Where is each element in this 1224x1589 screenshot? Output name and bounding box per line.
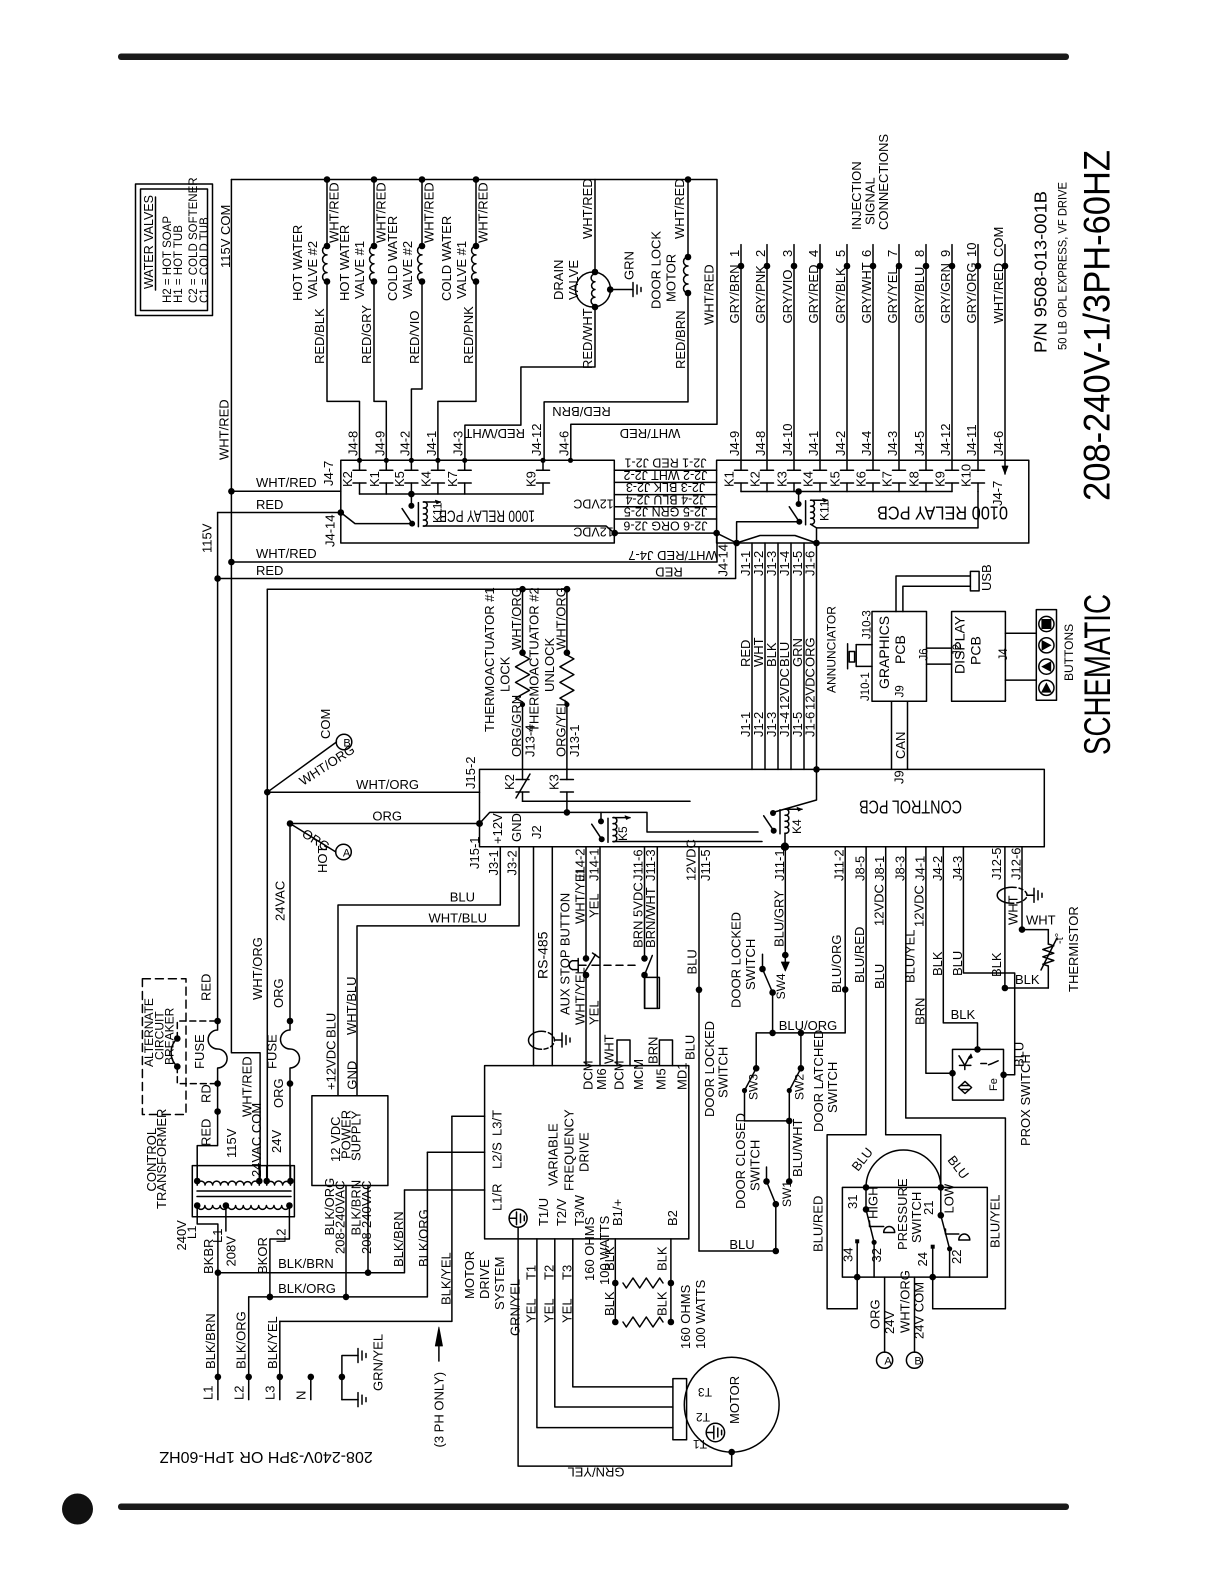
svg-text:THERMOACTUATOR #1: THERMOACTUATOR #1 <box>482 587 497 732</box>
svg-text:BREAKER: BREAKER <box>162 1007 176 1065</box>
svg-text:BLK: BLK <box>602 1246 617 1271</box>
svg-text:WHT/RED: WHT/RED <box>422 182 437 243</box>
coil water valve: COLD WATER VALVE #1 <box>438 180 491 461</box>
svg-text:SW4: SW4 <box>774 973 788 999</box>
wire +12V internal bus <box>480 812 759 832</box>
svg-text:J2-1 RED J2-1: J2-1 RED J2-1 <box>624 456 706 470</box>
svg-text:J2: J2 <box>529 825 544 839</box>
wire BLU arc jumper <box>866 1150 941 1187</box>
svg-text:115V: 115V <box>200 523 215 553</box>
svg-text:Fe: Fe <box>988 1078 1000 1091</box>
svg-text:ANNUNCIATOR: ANNUNCIATOR <box>825 606 839 693</box>
svg-text:FUSE: FUSE <box>265 1034 280 1069</box>
svg-text:J4-11: J4-11 <box>964 424 979 456</box>
svg-text:J12-6: J12-6 <box>1009 847 1024 880</box>
svg-text:BLK/ORG: BLK/ORG <box>234 1311 249 1369</box>
svg-text:J9: J9 <box>895 685 907 697</box>
svg-text:BKBR: BKBR <box>201 1239 216 1274</box>
svg-text:YEL: YEL <box>541 1298 556 1323</box>
svg-text:12VDC: 12VDC <box>777 668 792 710</box>
relay contact K5 <box>392 460 418 494</box>
svg-text:K1: K1 <box>722 471 737 487</box>
drain valve <box>464 178 613 460</box>
svg-text:BKOR: BKOR <box>255 1237 270 1274</box>
wire BLK/BRN 208-240VAC ps input <box>349 1180 374 1276</box>
fuse 24V <box>265 978 300 1108</box>
svg-text:32: 32 <box>869 1248 884 1262</box>
svg-text:J4-3: J4-3 <box>451 431 466 456</box>
svg-text:L3/T: L3/T <box>490 1110 505 1136</box>
svg-text:24V: 24V <box>882 1311 897 1334</box>
wire 115V COM rail (WHT/RED) <box>231 180 260 1182</box>
svg-text:WHT/RED: WHT/RED <box>217 399 232 460</box>
wire K10 to K11 coil <box>817 492 978 528</box>
svg-text:T3: T3 <box>559 1265 574 1280</box>
top border bar <box>118 54 1069 61</box>
wire WHT/BLU GND J3-2 <box>357 847 519 1096</box>
svg-text:SW2: SW2 <box>793 1074 807 1100</box>
relay contact K2 (0100) <box>748 460 774 491</box>
svg-text:J4-7: J4-7 <box>990 481 1005 506</box>
svg-text:CAN: CAN <box>893 732 908 759</box>
svg-text:DOOR LATCHED: DOOR LATCHED <box>811 1030 826 1132</box>
legend box WATER VALVES <box>136 177 213 315</box>
svg-text:J4-12: J4-12 <box>938 423 953 456</box>
svg-text:6: 6 <box>859 250 874 257</box>
wire BLU/GRY J11-1 <box>772 847 790 971</box>
svg-text:PCB: PCB <box>892 635 908 664</box>
svg-text:BLU/ORG: BLU/ORG <box>829 934 844 993</box>
thermoactuator THERMOACTUATOR #1 <box>482 586 538 770</box>
wire injection signal 10 GRY/ORG to J4-11 <box>964 243 981 461</box>
svg-text:1000 RELAY PCB: 1000 RELAY PCB <box>439 507 535 526</box>
svg-text:WHT/ORG: WHT/ORG <box>250 937 265 1000</box>
svg-text:J4-6: J4-6 <box>991 431 1006 456</box>
breaker contacts <box>171 1021 217 1084</box>
wire K2 bus <box>523 800 691 802</box>
svg-text:J4-3: J4-3 <box>885 431 900 456</box>
svg-text:SWITCH: SWITCH <box>715 1047 730 1098</box>
terminal GRN/YEL grounds <box>339 1334 386 1407</box>
svg-text:T2: T2 <box>696 1410 710 1424</box>
svg-text:J4-3: J4-3 <box>950 856 965 881</box>
diagonal jumpers below 0100 <box>717 533 737 543</box>
svg-text:K5: K5 <box>828 471 843 487</box>
svg-text:31: 31 <box>845 1195 860 1209</box>
svg-text:P/N 9508-013-001B: P/N 9508-013-001B <box>1031 191 1051 353</box>
wire J4-14 internal <box>341 513 412 524</box>
wire injection signal 7 GRY/YEL to J4-3 <box>885 245 902 461</box>
wire RS-485 pair <box>534 847 553 1066</box>
wire J1-3 BLK <box>764 543 779 769</box>
svg-text:J1-6: J1-6 <box>803 551 818 576</box>
svg-text:GRY/BLU: GRY/BLU <box>912 267 927 324</box>
svg-text:DOOR LOCKED: DOOR LOCKED <box>729 912 744 1008</box>
wire J2-3 BLK <box>614 494 716 496</box>
wire J2-1 RED <box>614 469 716 471</box>
svg-text:J12-5: J12-5 <box>989 847 1004 880</box>
wire WHT/ORG 24V COM to B <box>898 1270 927 1368</box>
svg-text:RED: RED <box>256 563 283 578</box>
svg-text:RED: RED <box>199 974 214 1001</box>
svg-text:7: 7 <box>885 250 900 257</box>
svg-text:COLD WATER: COLD WATER <box>385 216 400 301</box>
svg-text:-t°: -t° <box>1054 933 1066 944</box>
svg-text:J8-3: J8-3 <box>892 856 907 881</box>
svg-text:J15-2: J15-2 <box>463 756 478 789</box>
svg-text:HIGH: HIGH <box>866 1187 881 1220</box>
svg-text:BLK: BLK <box>654 1246 669 1271</box>
punch hole dot bottom left <box>62 1494 93 1525</box>
svg-text:RED/VIO: RED/VIO <box>407 311 422 364</box>
svg-text:J10-3: J10-3 <box>862 610 874 639</box>
svg-text:K9: K9 <box>524 471 539 487</box>
svg-text:GRY/VIO: GRY/VIO <box>780 270 795 324</box>
svg-text:MD1: MD1 <box>674 1063 689 1090</box>
svg-text:1: 1 <box>727 250 742 257</box>
svg-text:BLU/RED: BLU/RED <box>811 1196 826 1252</box>
svg-text:BLU: BLU <box>324 1013 339 1038</box>
svg-text:BLU/ORG: BLU/ORG <box>779 1018 838 1033</box>
MOTOR circle <box>673 1357 779 1452</box>
switch SW1 door closed <box>733 1113 794 1254</box>
svg-text:WHT/RED: WHT/RED <box>672 178 687 239</box>
svg-text:L3: L3 <box>262 1386 277 1400</box>
svg-text:BLK/BRN: BLK/BRN <box>391 1211 406 1267</box>
svg-text:BLK: BLK <box>951 1007 976 1022</box>
door lock motor coil <box>544 178 691 460</box>
wire J2-4 BLU <box>614 506 716 508</box>
wire L1 240V tap <box>174 1206 225 1275</box>
svg-text:J2-2 WHT J2-2: J2-2 WHT J2-2 <box>624 468 708 482</box>
ground GRN at drain valve <box>610 251 641 296</box>
svg-text:VALVE: VALVE <box>566 260 581 300</box>
connector oval thermistor <box>997 887 1042 903</box>
connector oval RS-485 <box>529 1031 571 1049</box>
svg-text:L1/R: L1/R <box>490 1184 505 1211</box>
fuse 115V <box>192 974 227 1103</box>
svg-text:HOT WATER: HOT WATER <box>337 225 352 301</box>
switch SW2 door latched <box>787 1030 840 1132</box>
terminal 34 <box>840 1239 860 1280</box>
svg-text:SWITCH: SWITCH <box>743 939 758 990</box>
svg-text:J14-1: J14-1 <box>587 848 602 881</box>
svg-text:K8: K8 <box>907 471 922 487</box>
svg-text:K3: K3 <box>775 471 790 487</box>
svg-text:L2: L2 <box>231 1386 246 1400</box>
svg-text:3: 3 <box>780 250 795 257</box>
svg-text:208-240VAC: 208-240VAC <box>332 1181 347 1254</box>
svg-text:J4-12: J4-12 <box>529 423 544 456</box>
relay contact K3 (0100) <box>775 460 801 491</box>
GRAPHICS PCB box <box>872 612 927 702</box>
svg-text:WHT: WHT <box>1026 913 1056 928</box>
contact LOW 21-22 <box>921 1183 970 1277</box>
svg-text:MOTOR: MOTOR <box>727 1376 742 1424</box>
svg-text:HOT: HOT <box>315 846 330 874</box>
coil water valve: HOT WATER VALVE #1 <box>337 180 389 461</box>
svg-text:T2: T2 <box>541 1265 556 1280</box>
bottom border bar <box>118 1504 1069 1511</box>
svg-text:RED/BRN: RED/BRN <box>552 404 611 419</box>
svg-text:2: 2 <box>753 250 768 257</box>
contact K2 (control) <box>502 769 530 801</box>
svg-text:J2-4 BLU J2-4: J2-4 BLU J2-4 <box>626 492 706 506</box>
wire BLU J11-5 <box>683 839 776 1252</box>
svg-text:J1-6: J1-6 <box>803 712 818 737</box>
label (3 PH ONLY) with arrow <box>431 1327 446 1448</box>
node B 24V COM circle <box>264 709 357 796</box>
svg-text:RED/WHT: RED/WHT <box>464 426 525 441</box>
wire contact bus 1000 <box>360 493 544 495</box>
svg-text:WHT/RED: WHT/RED <box>476 182 491 243</box>
wire BLU/ORG bus <box>756 847 848 1036</box>
svg-text:K5: K5 <box>392 471 407 487</box>
svg-text:BRN: BRN <box>646 1037 661 1064</box>
svg-text:J13-1: J13-1 <box>567 724 582 757</box>
svg-text:J10-1: J10-1 <box>860 672 872 701</box>
svg-text:GRN/YEL: GRN/YEL <box>371 1334 386 1391</box>
svg-text:BLU: BLU <box>684 949 699 974</box>
svg-text:GRY/WHT: GRY/WHT <box>859 262 874 323</box>
svg-text:K4: K4 <box>801 471 816 487</box>
vfd ground circle <box>509 1209 527 1227</box>
wire 115V COM top rail <box>231 180 717 461</box>
relay contact K9 (0100) <box>933 460 959 491</box>
svg-text:K2: K2 <box>502 774 517 790</box>
svg-text:5: 5 <box>833 250 848 257</box>
svg-text:YEL: YEL <box>559 1298 574 1323</box>
svg-text:J4-9: J4-9 <box>372 431 387 456</box>
svg-text:J4-8: J4-8 <box>346 431 361 456</box>
dashed mechanical link <box>592 964 640 966</box>
CONTROL PCB box <box>480 769 1045 846</box>
svg-text:K9: K9 <box>933 471 948 487</box>
svg-text:34: 34 <box>840 1248 855 1262</box>
svg-text:12VDC: 12VDC <box>573 525 613 539</box>
svg-text:J6: J6 <box>919 648 931 660</box>
svg-text:DOOR LOCK: DOOR LOCK <box>649 231 664 309</box>
wire J1-5 GRN <box>790 543 805 769</box>
relay contact K10 (0100) <box>959 460 985 491</box>
svg-text:J11-3: J11-3 <box>643 849 658 881</box>
relay contact K1 (0100) <box>722 460 748 491</box>
svg-text:RED: RED <box>256 497 283 512</box>
svg-text:K7: K7 <box>880 471 895 487</box>
svg-text:WHT/RED: WHT/RED <box>702 264 717 325</box>
svg-text:COM: COM <box>991 227 1006 257</box>
wire T2 YEL <box>541 1239 673 1407</box>
relay contact K2 <box>340 460 366 494</box>
svg-text:115V: 115V <box>224 1128 239 1158</box>
svg-text:T1: T1 <box>523 1265 538 1280</box>
relay coil K4 (control) <box>764 769 817 834</box>
wire BLU +12V J3-1 <box>338 847 500 1096</box>
thermistor element <box>1005 906 1081 992</box>
svg-text:SW1: SW1 <box>780 1181 794 1207</box>
svg-text:RED: RED <box>199 1119 214 1146</box>
svg-text:WHT/RED: WHT/RED <box>580 178 595 239</box>
wire WHT/ORG 24VAC COM rail <box>266 589 268 1181</box>
svg-text:SCHEMATIC: SCHEMATIC <box>1077 594 1118 755</box>
svg-text:YEL: YEL <box>587 893 602 918</box>
svg-text:K4: K4 <box>790 819 804 834</box>
svg-text:J4: J4 <box>998 648 1010 661</box>
wire GRN/YEL ground to motor <box>508 1227 736 1479</box>
wire RED rail J4-14 <box>218 543 736 579</box>
svg-text:J4-1: J4-1 <box>912 856 927 881</box>
svg-text:GRY/ORG: GRY/ORG <box>964 262 979 323</box>
VARIABLE FREQUENCY DRIVE box <box>485 1066 689 1239</box>
wire K11 coil to J1-6 <box>811 524 817 543</box>
svg-text:K3: K3 <box>546 774 561 790</box>
wire injection signal 6 GRY/WHT to J4-4 <box>859 245 876 461</box>
svg-text:RED/WHT: RED/WHT <box>580 308 595 369</box>
wire display-buttons link <box>1005 632 1035 634</box>
svg-text:WHT/RED: WHT/RED <box>620 426 681 441</box>
svg-text:J4-2: J4-2 <box>397 431 412 456</box>
svg-text:C1 = COLD TUB: C1 = COLD TUB <box>199 217 211 303</box>
svg-text:SWITCH: SWITCH <box>909 1192 924 1243</box>
contact HIGH 31-32 <box>845 1184 895 1277</box>
svg-text:J4-2: J4-2 <box>833 431 848 456</box>
wire injection signal 1 GRY/BRN to J4-9 <box>727 245 744 461</box>
svg-text:J8-1: J8-1 <box>872 856 887 881</box>
svg-text:BRN/WHT: BRN/WHT <box>643 887 658 948</box>
svg-text:WHT/RED J4-7: WHT/RED J4-7 <box>628 548 718 563</box>
svg-text:BLU/WHT: BLU/WHT <box>790 1118 805 1177</box>
wire J1-6 ORG <box>803 543 818 769</box>
svg-text:J4-2: J4-2 <box>930 856 945 881</box>
wire injection signal 9 GRY/GRN to J4-12 <box>938 245 955 461</box>
svg-text:CONTROL PCB: CONTROL PCB <box>859 797 962 818</box>
svg-text:GRAPHICS: GRAPHICS <box>876 616 892 689</box>
relay coil K5 (control) <box>592 812 630 842</box>
svg-text:WHT/BLU: WHT/BLU <box>429 911 488 926</box>
svg-text:T1/U: T1/U <box>536 1198 551 1226</box>
wire CAN bus <box>892 701 908 769</box>
DISPLAY PCB box <box>952 612 1006 702</box>
PROX SWITCH box <box>953 1049 1034 1146</box>
relay contact K8 (0100) <box>907 460 933 491</box>
svg-text:J8-5: J8-5 <box>853 856 868 881</box>
wire WHT/ORG to J15-2 <box>267 791 479 793</box>
wire BLU 12VDC J8-1 <box>872 847 941 1188</box>
svg-text:DRIVE: DRIVE <box>577 1132 592 1172</box>
svg-text:160 OHMS: 160 OHMS <box>678 1284 693 1349</box>
svg-text:L2: L2 <box>274 1229 289 1243</box>
wire T1 YEL <box>523 1239 673 1428</box>
svg-text:50 LB OPL EXPRESS, VF DRIVE: 50 LB OPL EXPRESS, VF DRIVE <box>1056 182 1070 350</box>
svg-text:J3-1: J3-1 <box>486 850 501 875</box>
svg-text:24V COM: 24V COM <box>912 1282 927 1339</box>
wire ORG to transformer 24V <box>289 1084 291 1181</box>
wire BRN J4-1 to prox <box>912 847 956 1077</box>
svg-text:K11: K11 <box>431 502 445 523</box>
svg-text:MOTOR: MOTOR <box>462 1251 477 1299</box>
svg-text:BLU/YEL: BLU/YEL <box>988 1195 1003 1248</box>
wire WHT/ORG top rail to thermoactuators <box>267 588 567 590</box>
svg-text:LOW: LOW <box>942 1183 957 1213</box>
wire injection signal COM WHT/RED to J4-6 <box>991 227 1008 461</box>
svg-text:WHT: WHT <box>1006 895 1021 925</box>
svg-text:GRY/BRN: GRY/BRN <box>727 265 742 324</box>
svg-text:FUSE: FUSE <box>192 1034 207 1069</box>
svg-text:TRANSFORMER: TRANSFORMER <box>154 1109 169 1209</box>
switch SW4 door locked <box>729 912 788 1033</box>
annunciator piezo <box>825 606 872 693</box>
svg-text:24: 24 <box>915 1252 930 1266</box>
wire J1-1 RED <box>738 543 753 769</box>
svg-text:+12VDC: +12VDC <box>324 1041 339 1091</box>
svg-text:J11-5: J11-5 <box>698 849 713 881</box>
svg-text:+12V: +12V <box>490 813 505 844</box>
svg-text:B2: B2 <box>665 1210 680 1226</box>
wire J2-6 ORG <box>614 532 716 534</box>
svg-text:0100 RELAY PCB: 0100 RELAY PCB <box>877 503 1008 524</box>
svg-text:BLK: BLK <box>654 1291 669 1316</box>
node valve taps <box>324 176 331 183</box>
svg-text:BLK: BLK <box>989 952 1004 977</box>
terminal L3 <box>262 1316 283 1400</box>
svg-text:208-240V-3PH OR 1PH-60HZ: 208-240V-3PH OR 1PH-60HZ <box>159 1448 373 1465</box>
svg-text:BLK: BLK <box>930 951 945 976</box>
svg-text:BLU: BLU <box>729 1237 754 1252</box>
svg-text:B: B <box>914 1356 921 1368</box>
svg-text:DCM: DCM <box>612 1060 627 1090</box>
wire WHT/RED feeder J4-7 <box>231 490 340 492</box>
USB connector <box>896 564 994 611</box>
svg-text:DRAIN: DRAIN <box>551 260 566 300</box>
wire T3 YEL <box>559 1239 673 1387</box>
svg-text:GRY/PNK: GRY/PNK <box>753 265 768 324</box>
svg-text:4: 4 <box>806 250 821 257</box>
svg-text:A: A <box>884 1356 892 1368</box>
terminal L1 <box>201 1273 222 1400</box>
svg-text:BLK/BRN: BLK/BRN <box>278 1256 334 1271</box>
wire ORG 24V to A <box>868 1277 898 1368</box>
wire RED to transformer <box>197 1084 217 1181</box>
svg-text:BLK/ORG: BLK/ORG <box>278 1281 336 1296</box>
0100 RELAY PCB box <box>717 460 1029 543</box>
1000 RELAY PCB box <box>341 460 615 543</box>
ALTERNATE CIRCUIT BREAKER dashed box <box>142 979 186 1115</box>
svg-text:BLK/YEL: BLK/YEL <box>265 1316 280 1369</box>
wire BLK/ORG bus <box>249 1152 431 1300</box>
svg-text:J9: J9 <box>892 770 907 784</box>
svg-text:WHT/YEL: WHT/YEL <box>573 866 588 924</box>
relay coil K11 (1000 pcb) <box>402 494 444 527</box>
svg-text:BUTTONS: BUTTONS <box>1062 624 1076 681</box>
svg-text:VALVE #1: VALVE #1 <box>454 241 469 299</box>
svg-text:GRN/YEL: GRN/YEL <box>567 1465 624 1480</box>
wire J1-2 WHT <box>751 543 766 769</box>
svg-text:L1: L1 <box>201 1386 216 1400</box>
svg-text:VARIABLE: VARIABLE <box>546 1123 561 1186</box>
svg-text:WATER VALVES: WATER VALVES <box>142 195 156 289</box>
wire WHT/YEL J14-2 <box>585 847 587 960</box>
svg-text:208-240V-1/3PH-60HZ: 208-240V-1/3PH-60HZ <box>1077 150 1118 501</box>
svg-text:MOTOR: MOTOR <box>664 254 679 302</box>
svg-text:WHT/ORG: WHT/ORG <box>356 777 419 792</box>
wire WHT J12-6 <box>1009 847 1026 933</box>
svg-text:COLD WATER: COLD WATER <box>439 216 454 301</box>
svg-text:J4-8: J4-8 <box>753 431 768 456</box>
svg-text:J4-1: J4-1 <box>424 431 439 456</box>
svg-text:VALVE #1: VALVE #1 <box>352 241 367 299</box>
svg-text:N: N <box>293 1391 308 1400</box>
svg-text:AUX STOP BUTTON: AUX STOP BUTTON <box>558 893 573 1015</box>
